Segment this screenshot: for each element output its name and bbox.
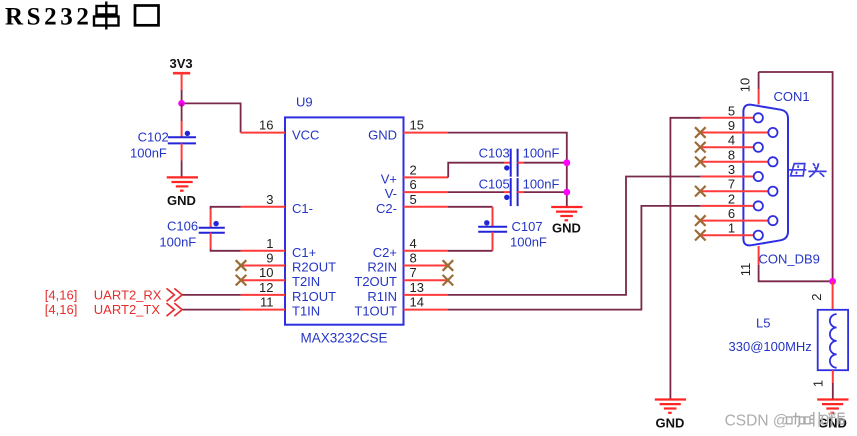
wire CON1 pin5 to GND [670,118,700,400]
svg-text:1: 1 [266,236,273,251]
svg-text:R1OUT: R1OUT [292,289,336,304]
CON1 pin 10 stub (top) [738,72,759,105]
svg-text:CON1: CON1 [774,89,810,104]
wire C105 to ground rail [518,191,567,193]
wire C106 to C1+ [211,233,241,251]
port UART2_TX [45,302,182,317]
wire R1IN to CON1 pin3 [448,177,701,295]
svg-text:3: 3 [266,192,273,207]
svg-text:0: 0 [821,413,830,430]
svg-text:100nF: 100nF [523,177,560,192]
connector CON1 DB9 body [743,89,820,267]
no-connect X CON1 pin 6 [695,215,706,226]
pin 2 V+ stub [381,162,448,186]
ground GND (caps rail) [551,207,582,236]
svg-text:3V3: 3V3 [170,56,193,71]
no-connect X pin 9 [236,260,247,271]
CON1 pin 7 stub [701,177,769,192]
svg-text:UART2_RX: UART2_RX [94,287,162,302]
capacitor C107 100nF [478,219,547,250]
svg-text:100nF: 100nF [510,235,547,250]
capacitor C106 100nF [159,219,224,250]
svg-text:R2IN: R2IN [367,260,397,275]
no-connect X CON1 pin 7 [695,186,706,197]
junction C105 ground rail [563,189,570,196]
svg-text:11: 11 [260,295,274,310]
pin 12 R1OUT stub [241,280,337,304]
pin 16 VCC stub [241,118,320,143]
svg-text:C107: C107 [512,219,543,234]
svg-text:2: 2 [410,162,417,177]
svg-text:3: 3 [728,162,735,177]
CON1 pin 8 stub [701,147,769,162]
svg-text:T2IN: T2IN [292,274,320,289]
wire C102 to GND [181,143,183,177]
svg-text:7: 7 [410,265,417,280]
svg-text:GND: GND [552,221,581,236]
svg-text:100nF: 100nF [130,146,167,161]
wire UART2_RX to R1OUT [183,294,241,296]
svg-text:UART2_TX: UART2_TX [94,302,161,317]
pin 11 T1IN stub [241,295,321,319]
wire V- to C105 [448,191,510,193]
svg-text:C103: C103 [479,146,510,161]
capacitor C102 100nF [130,130,196,161]
svg-text:T2OUT: T2OUT [354,274,397,289]
pin 13 R1IN stub [367,280,447,304]
ground GND (L5) [817,400,848,431]
CON1 pin 3 stub [701,162,754,177]
svg-text:CON_DB9: CON_DB9 [759,252,820,267]
junction L5 node [829,278,836,285]
svg-text:13: 13 [410,280,424,295]
ground GND (DB9 pin5) [655,400,686,431]
wire C1- to C106 [211,207,241,227]
wire junction to L5 pin2 [832,281,834,310]
pin 6 V- stub [385,177,448,201]
wire CON1 pin11 to junction [759,265,833,281]
svg-text:100nF: 100nF [159,235,196,250]
pin 15 GND stub [368,118,448,143]
pin 10 T2IN stub [241,265,320,289]
svg-text:2: 2 [728,191,735,206]
svg-text:T1IN: T1IN [292,304,320,319]
wire V+ to C103 [448,163,510,178]
capacitor C105 100nF [479,177,560,206]
wire CON1 pin10 to L5 rail [759,72,833,281]
CON1 pin 6 stub [701,206,769,221]
svg-text:4: 4 [728,133,735,148]
no-connect X CON1 pin 4 [695,142,706,153]
svg-text:14: 14 [410,295,424,310]
wire UART2_TX to T1IN [183,309,241,311]
svg-text:CSDN @: CSDN @ [725,413,789,430]
svg-text:2: 2 [809,293,824,300]
CON1 pin 4 stub [701,133,754,148]
svg-text:MAX3232CSE: MAX3232CSE [301,331,388,346]
CON1 pin 9 stub [701,118,769,133]
svg-text:8: 8 [728,147,735,162]
svg-text:9: 9 [728,118,735,133]
wire GND pin15 to ground rail [448,133,567,207]
pin 3 C1- stub [241,192,313,216]
svg-text:6: 6 [728,206,735,221]
svg-text:12: 12 [259,280,273,295]
ground GND (under C102) [167,177,198,208]
svg-text:9: 9 [266,251,273,266]
svg-text:15: 15 [410,118,424,133]
CON1 pin 1 stub [701,221,754,236]
svg-text:[4,16]: [4,16] [45,287,78,302]
svg-text:V+: V+ [381,171,397,186]
svg-text:5: 5 [410,192,417,207]
svg-text:5: 5 [728,103,735,118]
svg-text:V-: V- [385,186,397,201]
pin 14 T1OUT stub [354,295,447,319]
no-connect X CON1 pin 1 [695,230,706,241]
svg-text:16: 16 [259,118,273,133]
svg-text:7: 7 [728,177,735,192]
pin 5 C2- stub [376,192,448,216]
svg-text:C106: C106 [167,219,198,234]
svg-text:6: 6 [410,177,417,192]
CON1 pin circles right column [768,128,777,225]
inductor L5 330@100MHz [729,310,849,370]
wire C107 to C2+ [448,232,493,251]
wire 3V3 to VCC pin16 [182,103,241,132]
svg-text:100nF: 100nF [523,146,560,161]
pin 8 R2IN stub [367,251,447,275]
svg-text:VCC: VCC [292,127,319,142]
svg-text:GND: GND [167,193,196,208]
junction C103 ground rail [563,159,570,166]
pin 4 C2+ stub [373,236,448,260]
power 3V3 [170,56,193,103]
svg-text:U9: U9 [296,95,313,110]
no-connect X CON1 pin 8 [695,157,706,168]
CON1 pin 2 stub [701,191,754,206]
wire C2- to C107 [448,207,493,226]
wire C103 to ground rail [518,162,567,164]
no-connect X pin 10 [236,275,247,286]
svg-text:L5: L5 [756,316,770,331]
title RS232串口 [5,2,159,31]
watermark CSDN [725,412,845,430]
wire T1OUT to CON1 pin2 [448,206,701,310]
svg-text:1: 1 [728,221,735,236]
port UART2_RX [45,287,182,302]
label 母头 female header [789,164,807,176]
svg-text:C1+: C1+ [292,245,316,260]
CON1 pin 5 stub [701,103,754,118]
op-amp U9 chip body MAX3232CSE [285,95,404,346]
wire L5 to GND [832,370,834,399]
no-connect X pin 7 [443,275,454,286]
no-connect X CON1 pin 9 [695,127,706,138]
capacitor C103 100nF [479,146,560,177]
svg-text:4: 4 [410,236,417,251]
svg-text:C1-: C1- [292,201,313,216]
svg-text:C102: C102 [138,130,169,145]
svg-text:10: 10 [259,265,273,280]
svg-text:11: 11 [738,263,753,277]
svg-text:330@100MHz: 330@100MHz [729,339,812,354]
svg-text:[4,16]: [4,16] [45,302,78,317]
svg-text:8: 8 [410,251,417,266]
CON1 pin circles left column [754,113,763,240]
pin 7 T2OUT stub [354,265,447,289]
svg-text:GND: GND [368,127,397,142]
svg-text:GND: GND [656,416,685,431]
wire 3V3 node down to C102 [181,103,183,136]
svg-text:T1OUT: T1OUT [354,304,397,319]
svg-text:1: 1 [811,380,826,387]
pin 1 C1+ stub [241,236,317,260]
svg-text:10: 10 [738,78,753,92]
no-connect X pin 8 [443,260,454,271]
svg-text:R1IN: R1IN [367,289,397,304]
svg-text:C2+: C2+ [373,245,397,260]
pin 9 R2OUT stub [241,251,336,275]
svg-text:C105: C105 [479,177,510,192]
svg-text:RS232: RS232 [5,4,92,31]
junction 3V3 node [178,100,185,107]
svg-text:C2-: C2- [376,201,397,216]
CON1 pin 11 stub (bottom) [738,246,759,276]
svg-text:R2OUT: R2OUT [292,260,336,275]
